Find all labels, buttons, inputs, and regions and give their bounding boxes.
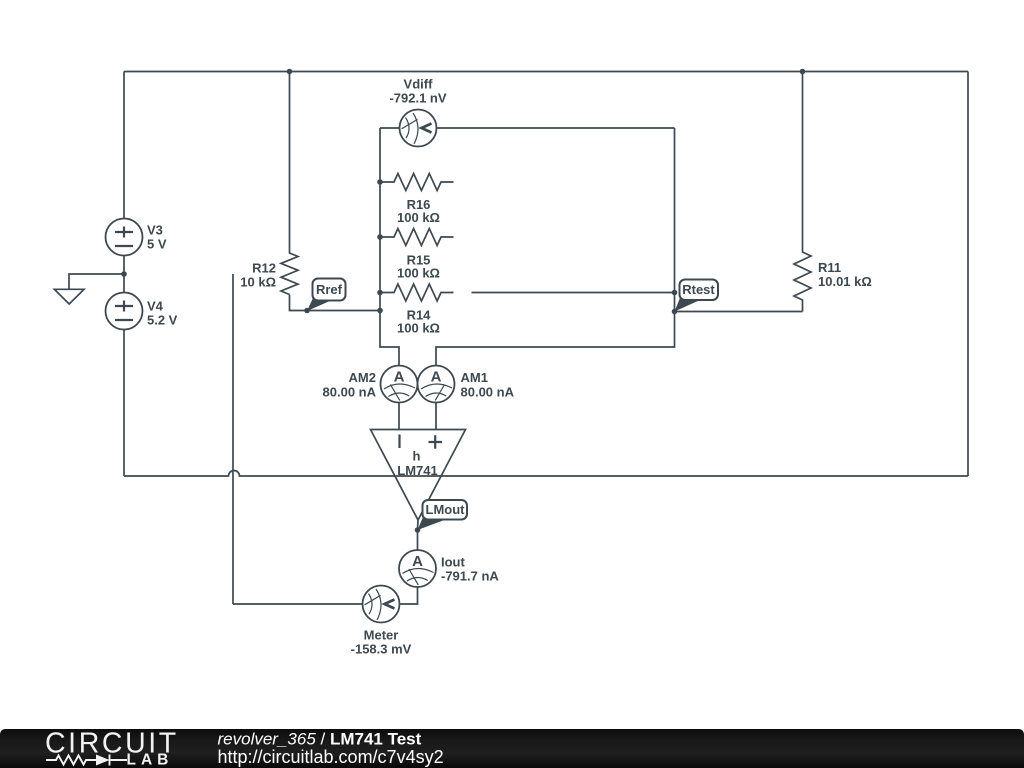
svg-text:R11: R11 (818, 260, 841, 275)
svg-text:A: A (431, 369, 442, 386)
svg-text:A: A (394, 369, 405, 386)
wire Rref horizontal run (290, 295, 381, 311)
wire right rail (967, 72, 969, 477)
ammeter Iout (399, 550, 436, 587)
svg-text:5 V: 5 V (147, 237, 167, 252)
resistor R14 (380, 284, 454, 301)
resistor R12 (281, 72, 298, 295)
wire op-amp output to Meter (233, 520, 418, 604)
svg-text:Meter: Meter (364, 628, 399, 643)
op-amp plus input marker (429, 435, 443, 449)
wire from junction down to Meter (232, 274, 234, 604)
op-amp U1 LM741 (371, 430, 466, 521)
svg-text:80.00 nA: 80.00 nA (323, 385, 377, 400)
svg-text:Rtest: Rtest (682, 282, 715, 297)
voltage source V3 (106, 219, 143, 256)
svg-text:h: h (413, 449, 421, 464)
resistor R16 (380, 174, 454, 191)
svg-text:LAB: LAB (127, 751, 174, 768)
node junction dots (287, 69, 293, 75)
svg-text:revolver_365 / LM741 Test: revolver_365 / LM741 Test (218, 730, 422, 749)
flag LMout (418, 500, 468, 530)
ammeter AM2 (381, 366, 418, 403)
svg-text:-158.3 mV: -158.3 mV (351, 642, 412, 657)
wire R11 to right box rail (675, 311, 803, 313)
resistor R11 (794, 72, 811, 312)
svg-text:AM2: AM2 (349, 370, 376, 385)
svg-text:100 kΩ: 100 kΩ (397, 321, 440, 336)
svg-text:100 kΩ: 100 kΩ (397, 210, 440, 225)
bottom branding bar (0, 729, 1024, 768)
svg-text:80.00 nA: 80.00 nA (461, 385, 515, 400)
resistor R15 (380, 229, 454, 246)
voltmeter Vdiff (400, 110, 437, 147)
svg-text:5.2 V: 5.2 V (147, 313, 178, 328)
svg-text:10 kΩ: 10 kΩ (240, 275, 276, 290)
voltmeter Meter (363, 586, 400, 623)
svg-text:100 kΩ: 100 kΩ (397, 266, 440, 281)
svg-text:Vdiff: Vdiff (404, 77, 434, 92)
svg-text:-791.7 nA: -791.7 nA (441, 569, 499, 584)
svg-text:V3: V3 (147, 223, 163, 238)
svg-text:-792.1 nV: -792.1 nV (389, 91, 446, 106)
svg-text:Iout: Iout (441, 555, 465, 570)
wire Vdiff horizontal (380, 127, 675, 129)
wire bottom rail with hop over vertical wire (124, 471, 968, 477)
svg-text:V4: V4 (147, 299, 164, 314)
voltage source V4 (106, 293, 143, 330)
wire R14 row to Rtest node (472, 292, 675, 294)
ground (54, 289, 84, 304)
svg-text:LM741: LM741 (397, 463, 437, 478)
wire left rail through V3 V4 (123, 72, 125, 477)
wire ground stub to V3/V4 junction (69, 274, 124, 289)
svg-text:Rref: Rref (316, 282, 343, 297)
svg-text:http://circuitlab.com/c7v4sy2: http://circuitlab.com/c7v4sy2 (218, 747, 444, 767)
logo resistor-diode glyph (46, 755, 127, 766)
wire top rail from V3 to right rail (124, 71, 968, 73)
svg-text:10.01 kΩ: 10.01 kΩ (818, 274, 872, 289)
svg-text:LMout: LMout (426, 502, 466, 517)
flag Rref (307, 279, 346, 312)
svg-text:A: A (412, 553, 423, 570)
op-amp minus input marker (398, 435, 400, 449)
wire right box rail to AM1 (436, 128, 675, 430)
wire left box rail to AM2 (380, 128, 399, 430)
svg-text:R12: R12 (252, 261, 276, 276)
flag Rtest (675, 280, 719, 312)
svg-text:AM1: AM1 (461, 370, 488, 385)
ammeter AM1 (418, 366, 455, 403)
